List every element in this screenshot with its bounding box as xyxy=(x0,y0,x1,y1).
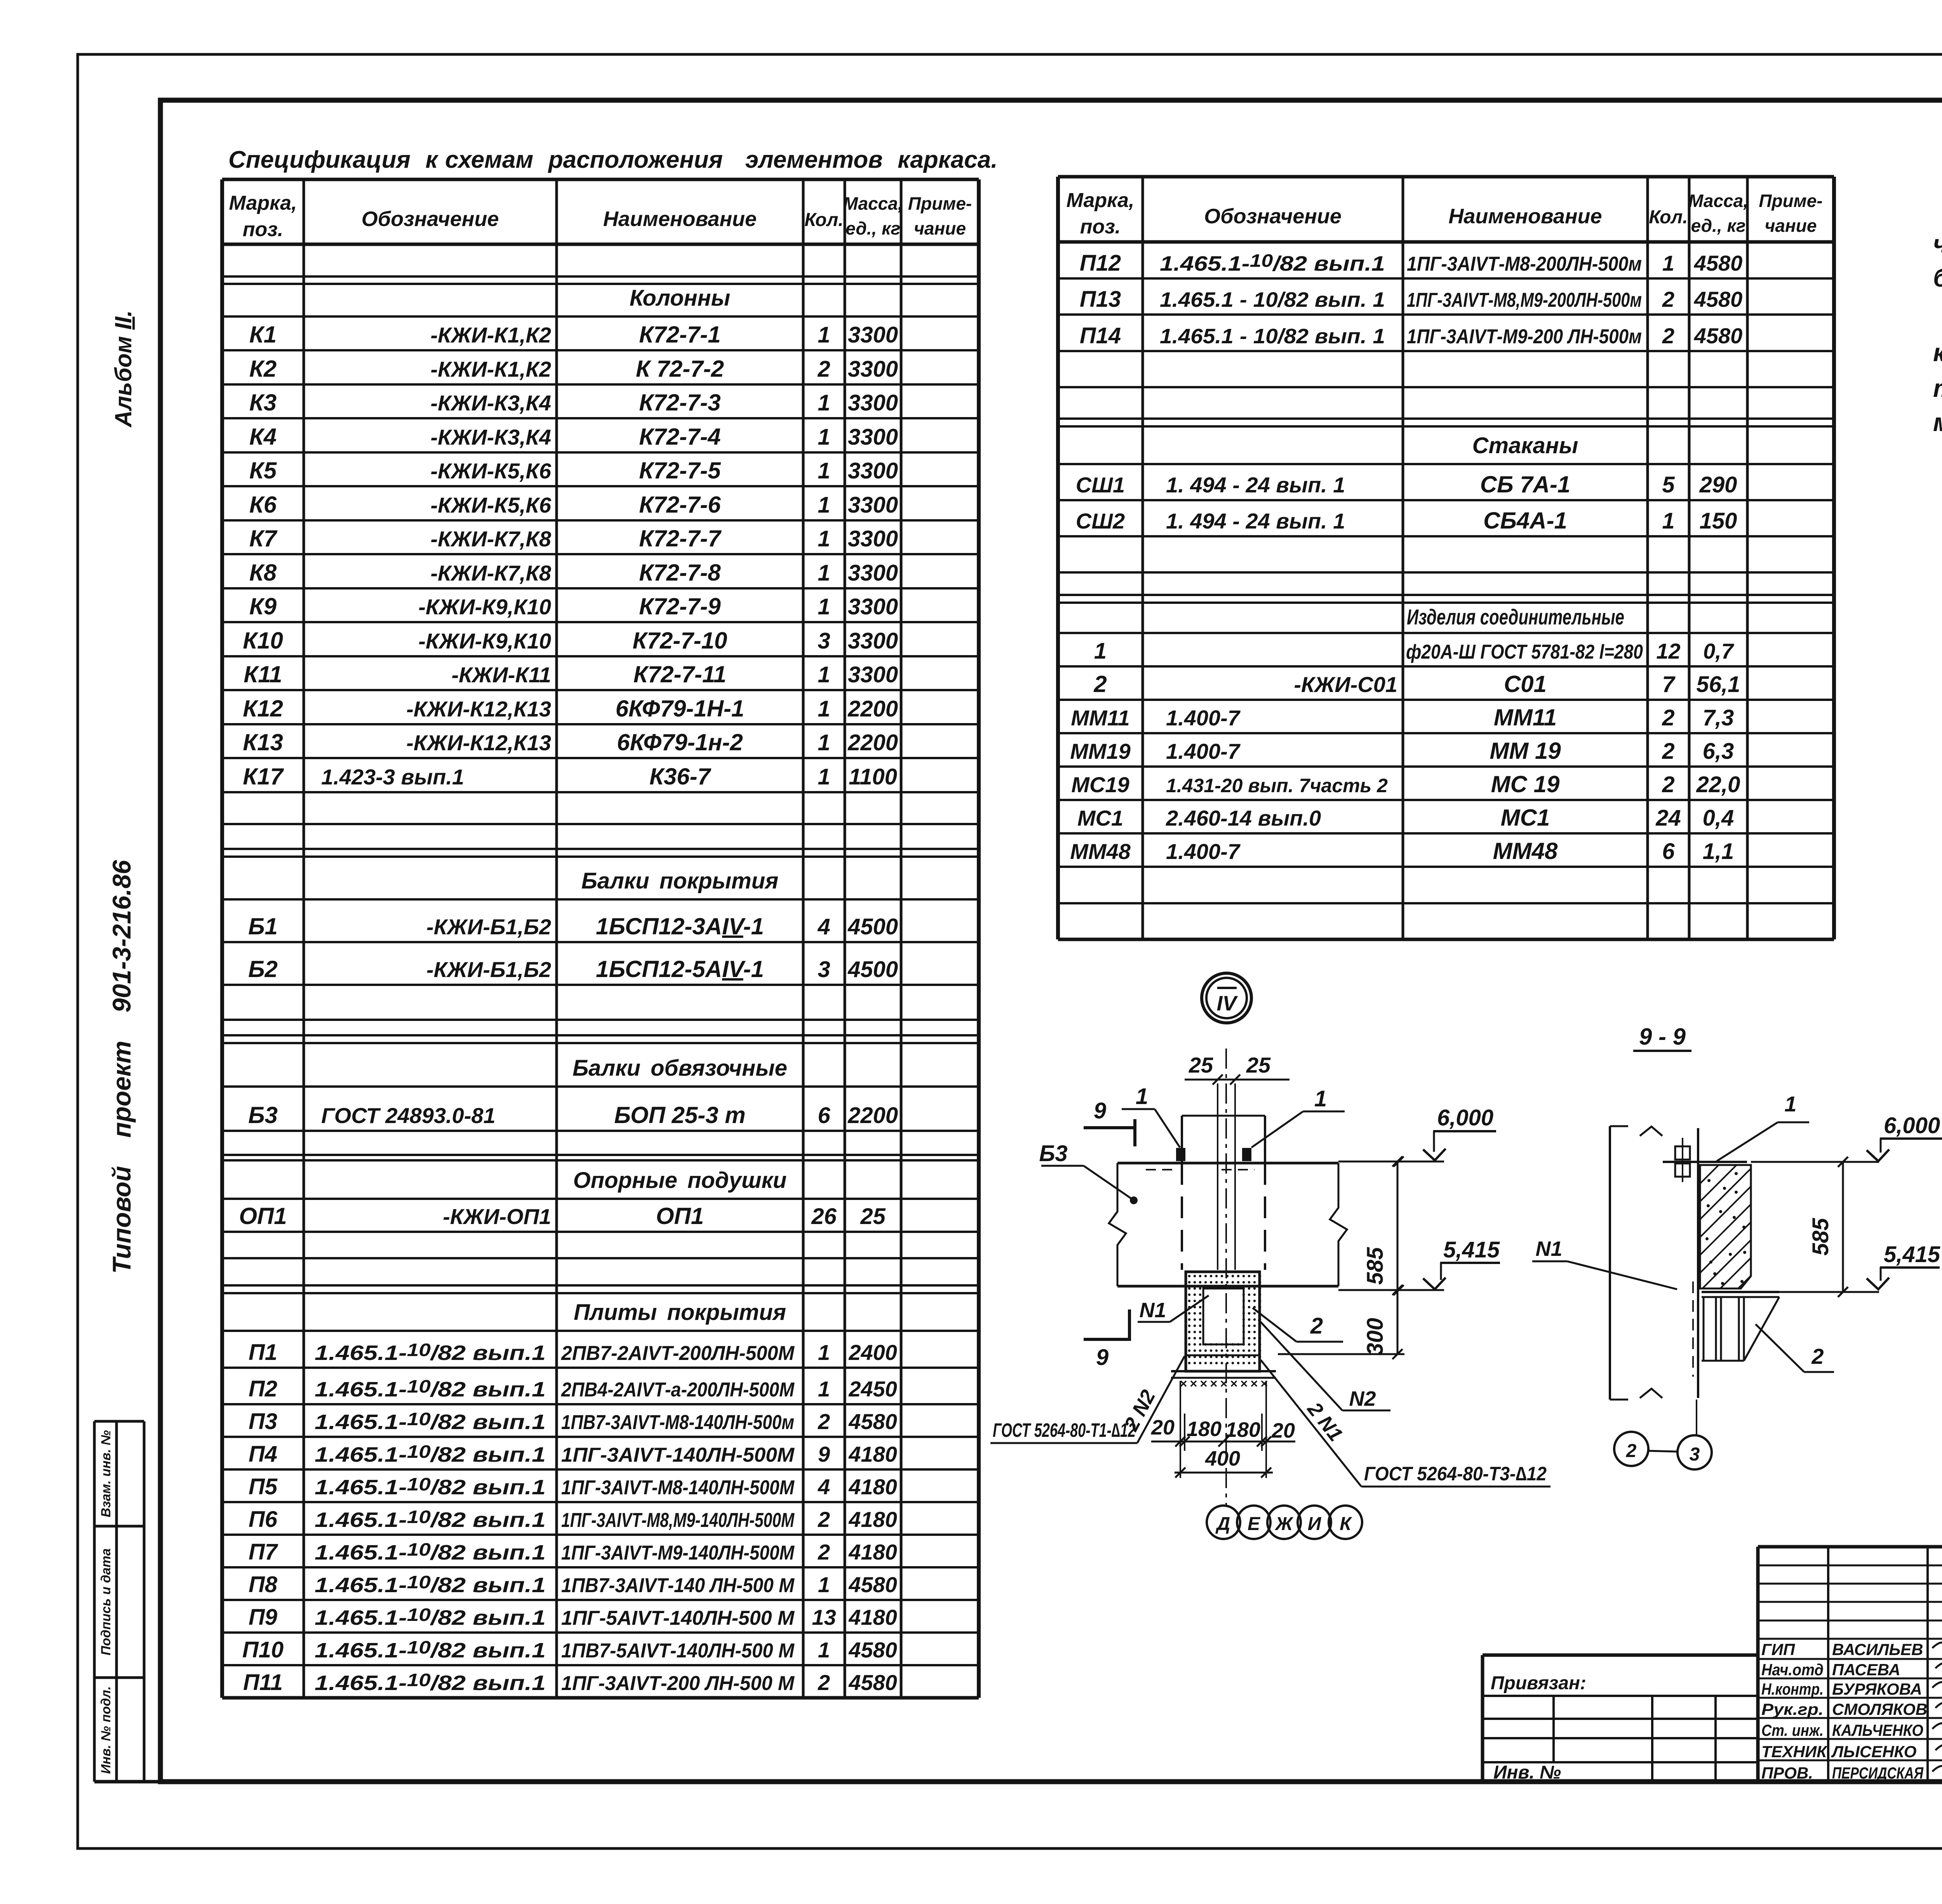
svg-text:2: 2 xyxy=(1662,772,1674,797)
left table row П10 xyxy=(242,1637,897,1662)
svg-text:7: 7 xyxy=(1662,672,1676,697)
svg-text:1: 1 xyxy=(1136,1084,1148,1109)
svg-text:ОП1: ОП1 xyxy=(656,1203,704,1229)
margin cell Взам. инв. № xyxy=(99,1430,113,1518)
svg-text:П7: П7 xyxy=(249,1539,278,1565)
svg-text:П14: П14 xyxy=(1080,323,1121,348)
svg-text:ПАСЕВА: ПАСЕВА xyxy=(1832,1661,1900,1679)
svg-text:1ПГ-3АIVТ-М8,М9-200ЛН-500м: 1ПГ-3АIVТ-М8,М9-200ЛН-500м xyxy=(1407,289,1642,311)
detail IV bottom dims 20 180 180 20 xyxy=(1151,1381,1295,1478)
svg-text:С01: С01 xyxy=(1504,671,1547,697)
svg-text:2450: 2450 xyxy=(848,1377,897,1401)
svg-text:1: 1 xyxy=(818,390,830,416)
svg-text:1: 1 xyxy=(1662,508,1674,534)
notes paragraph xyxy=(1933,192,1942,436)
svg-text:ММ11: ММ11 xyxy=(1494,704,1557,730)
svg-text:1: 1 xyxy=(818,560,830,586)
svg-text:1.465.1-10/82 вып.1: 1.465.1-10/82 вып.1 xyxy=(1160,250,1385,275)
svg-text:4180: 4180 xyxy=(848,1442,897,1466)
svg-text:Н.контр.: Н.контр. xyxy=(1761,1680,1824,1698)
svg-text:2ПВ7-2АIVТ-200ЛН-500М: 2ПВ7-2АIVТ-200ЛН-500М xyxy=(561,1342,795,1365)
svg-text:-КЖИ-К5,К6: -КЖИ-К5,К6 xyxy=(430,459,551,483)
svg-text:1.465.1-10/82 вып.1: 1.465.1-10/82 вып.1 xyxy=(315,1409,546,1434)
svg-text:9: 9 xyxy=(1094,1098,1106,1123)
svg-text:К3: К3 xyxy=(249,389,277,416)
svg-text:-КЖИ-К1,К2: -КЖИ-К1,К2 xyxy=(430,323,551,347)
svg-text:Обозначение: Обозначение xyxy=(1204,205,1342,228)
9-9 anchor bolts and plate xyxy=(1663,1138,1747,1182)
svg-text:2: 2 xyxy=(1626,1441,1637,1461)
left table section header Опорные подушки xyxy=(573,1168,787,1193)
svg-text:5: 5 xyxy=(1662,472,1675,497)
svg-text:-КЖИ-Б1,Б2: -КЖИ-Б1,Б2 xyxy=(426,915,551,939)
left table row К5 xyxy=(249,457,898,483)
left table section header Балки обвязочные xyxy=(573,1055,787,1081)
svg-text:3: 3 xyxy=(1690,1444,1700,1465)
title block personnel rows xyxy=(1761,1640,1927,1782)
svg-text:К5: К5 xyxy=(249,457,277,483)
svg-text:1: 1 xyxy=(818,424,830,450)
detail IV elevation 5,415 xyxy=(1338,1237,1500,1295)
svg-text:-КЖИ-К7,К8: -КЖИ-К7,К8 xyxy=(430,527,551,551)
svg-text:400: 400 xyxy=(1205,1447,1240,1470)
svg-text:ГОСТ 5264-80-Т1-∆12: ГОСТ 5264-80-Т1-∆12 xyxy=(993,1419,1136,1441)
left table row Б3 xyxy=(248,1102,898,1128)
left table row П6 xyxy=(249,1507,897,1532)
svg-text:3300: 3300 xyxy=(848,424,898,450)
detail IV leader 1 right xyxy=(1251,1086,1345,1148)
svg-text:2200: 2200 xyxy=(847,730,898,755)
left table row П2 xyxy=(249,1376,897,1401)
left table row К1 xyxy=(249,322,898,348)
svg-text:П8: П8 xyxy=(249,1572,278,1597)
svg-text:1.400-7: 1.400-7 xyxy=(1166,839,1241,864)
left table row П11 xyxy=(243,1670,897,1695)
svg-text:2: 2 xyxy=(1310,1313,1323,1339)
svg-text:585: 585 xyxy=(1363,1247,1388,1285)
svg-text:25: 25 xyxy=(1189,1053,1213,1077)
svg-text:К72-7-9: К72-7-9 xyxy=(639,593,721,619)
svg-text:-КЖИ-Б1,Б2: -КЖИ-Б1,Б2 xyxy=(426,957,551,982)
svg-text:МС 19: МС 19 xyxy=(1491,771,1560,797)
sheet title xyxy=(228,146,997,173)
right table row ММ11 xyxy=(1071,704,1734,730)
svg-text:3: 3 xyxy=(818,957,830,982)
svg-text:4580: 4580 xyxy=(848,1409,897,1434)
svg-text:МС1: МС1 xyxy=(1501,805,1550,831)
svg-text:ед., кг: ед., кг xyxy=(846,218,900,238)
svg-text:-КЖИ-С01: -КЖИ-С01 xyxy=(1294,672,1397,697)
svg-text:К72-7-11: К72-7-11 xyxy=(633,661,726,687)
svg-text:2: 2 xyxy=(1093,671,1107,697)
margin label Типовой проект 901-3-216.86 xyxy=(107,859,136,1274)
svg-text:К2: К2 xyxy=(249,356,277,382)
svg-text:-КЖИ-К12,К13: -КЖИ-К12,К13 xyxy=(406,730,551,755)
svg-text:5,415: 5,415 xyxy=(1443,1237,1500,1262)
9-9 elevation 6,000 xyxy=(1751,1113,1942,1167)
svg-text:Балки покрытия: Балки покрытия xyxy=(581,868,778,894)
detail IV label N1 xyxy=(1138,1295,1209,1322)
9-9 leader 2 xyxy=(1756,1324,1834,1372)
svg-text:1ПГ-3АIVТ-М8-200ЛН-500м: 1ПГ-3АIVТ-М8-200ЛН-500м xyxy=(1407,253,1642,275)
svg-text:честве утеплителя принят пе: честве утеплителя принят пено- xyxy=(1933,230,1942,258)
svg-text:Привязан:: Привязан: xyxy=(1491,1673,1586,1694)
svg-text:1.400-7: 1.400-7 xyxy=(1166,706,1241,730)
detail IV section mark 9 bottom xyxy=(1084,1309,1131,1370)
svg-text:Ж: Ж xyxy=(1274,1514,1294,1534)
svg-text:1.465.1-10/82 вып.1: 1.465.1-10/82 вып.1 xyxy=(315,1637,546,1662)
svg-text:2: 2 xyxy=(818,1670,830,1695)
svg-text:1: 1 xyxy=(1094,638,1107,664)
svg-text:4580: 4580 xyxy=(1694,323,1743,348)
svg-text:1: 1 xyxy=(1784,1092,1796,1116)
right table row П12 xyxy=(1080,250,1742,276)
svg-text:ММ11: ММ11 xyxy=(1071,706,1129,730)
svg-text:Е: Е xyxy=(1248,1514,1261,1534)
svg-text:1ПГ-3АIVТ-М9-200 ЛН-500м: 1ПГ-3АIVТ-М9-200 ЛН-500м xyxy=(1407,325,1642,348)
right table row ММ48 xyxy=(1070,838,1734,864)
svg-text:0,7: 0,7 xyxy=(1703,639,1735,663)
left table row К9 xyxy=(249,593,898,619)
svg-text:4580: 4580 xyxy=(848,1572,897,1597)
svg-text:20: 20 xyxy=(1271,1419,1295,1442)
detail IV weld note ГОСТ 5264-80-Т1 with leader 2N2 xyxy=(990,1356,1185,1443)
svg-text:4180: 4180 xyxy=(848,1540,897,1564)
svg-text:К72-7-4: К72-7-4 xyxy=(639,424,720,450)
detail IV column outline xyxy=(1182,1116,1265,1270)
left table row Б1 xyxy=(248,913,898,939)
detail IV elevation 6,000 xyxy=(1338,1105,1496,1167)
margin cell Инв. № подл. xyxy=(99,1686,113,1774)
svg-text:К7: К7 xyxy=(249,525,278,551)
svg-text:К72-7-7: К72-7-7 xyxy=(639,525,722,551)
svg-text:Обозначение: Обозначение xyxy=(362,207,499,231)
svg-text:-КЖИ-К9,К10: -КЖИ-К9,К10 xyxy=(418,629,551,653)
svg-text:СШ2: СШ2 xyxy=(1076,509,1125,533)
svg-text:СШ1: СШ1 xyxy=(1076,473,1125,497)
right table row МС19 xyxy=(1071,771,1740,797)
svg-text:1. 494 - 24 вып. 1: 1. 494 - 24 вып. 1 xyxy=(1166,473,1345,497)
9-9 bracket console xyxy=(1693,1282,1779,1377)
svg-text:ф20А-Ш ГОСТ 5781-82 l=280: ф20А-Ш ГОСТ 5781-82 l=280 xyxy=(1406,641,1643,663)
svg-text:П10: П10 xyxy=(242,1637,284,1662)
9-9 vertical dim 585 xyxy=(1808,1157,1848,1297)
svg-text:1: 1 xyxy=(818,730,830,755)
svg-text:4180: 4180 xyxy=(848,1605,897,1629)
svg-text:150: 150 xyxy=(1700,508,1737,534)
right specification table grid xyxy=(1058,177,1834,939)
svg-text:К72-7-8: К72-7-8 xyxy=(639,560,721,586)
svg-text:1.465.1-10/82 вып.1: 1.465.1-10/82 вып.1 xyxy=(315,1670,546,1695)
svg-text:марки: марки xyxy=(1933,408,1942,436)
svg-text:6,000: 6,000 xyxy=(1884,1113,1940,1138)
left table row К11 xyxy=(244,661,898,687)
svg-text:13: 13 xyxy=(812,1605,836,1629)
svg-text:бетон.: бетон. xyxy=(1933,263,1942,292)
svg-text:П4: П4 xyxy=(249,1441,277,1467)
svg-text:Ст. инж.: Ст. инж. xyxy=(1761,1721,1824,1739)
svg-text:9: 9 xyxy=(1096,1345,1108,1370)
svg-text:180: 180 xyxy=(1225,1418,1260,1441)
svg-text:П3: П3 xyxy=(249,1409,277,1434)
svg-text:1: 1 xyxy=(818,696,830,722)
right table row П14 xyxy=(1080,323,1742,348)
svg-text:1: 1 xyxy=(1662,251,1674,275)
svg-text:4580: 4580 xyxy=(1694,287,1743,311)
svg-text:Б3: Б3 xyxy=(1039,1141,1067,1166)
svg-text:3300: 3300 xyxy=(848,594,898,619)
svg-text:N2: N2 xyxy=(1349,1387,1376,1410)
svg-text:1ПГ-3АIVТ-М8-140ЛН-500М: 1ПГ-3АIVТ-М8-140ЛН-500М xyxy=(561,1476,795,1499)
svg-text:1БСП12-5АIV-1: 1БСП12-5АIV-1 xyxy=(596,956,764,982)
svg-text:К12: К12 xyxy=(243,696,283,722)
svg-text:Кол.: Кол. xyxy=(1649,207,1688,228)
svg-text:3300: 3300 xyxy=(848,322,898,348)
svg-text:N1: N1 xyxy=(1139,1299,1166,1322)
section 9-9 label xyxy=(1633,1024,1691,1051)
svg-text:П11: П11 xyxy=(243,1670,283,1695)
svg-text:К4: К4 xyxy=(249,424,277,450)
svg-text:БУРЯКОВА: БУРЯКОВА xyxy=(1832,1680,1922,1698)
svg-text:2: 2 xyxy=(817,356,830,382)
svg-text:2ПВ4-2АIVТ-а-200ЛН-500М: 2ПВ4-2АIVТ-а-200ЛН-500М xyxy=(561,1379,795,1401)
svg-text:П12: П12 xyxy=(1080,250,1121,276)
svg-text:-КЖИ-ОП1: -КЖИ-ОП1 xyxy=(443,1204,551,1229)
svg-text:Наименование: Наименование xyxy=(1448,205,1602,228)
svg-text:СБ4А-1: СБ4А-1 xyxy=(1483,508,1567,534)
title block signatures xyxy=(1932,1638,1942,1772)
svg-text:1.465.1-10/82 вып.1: 1.465.1-10/82 вып.1 xyxy=(315,1539,546,1564)
svg-text:1.465.1-10/82 вып.1: 1.465.1-10/82 вып.1 xyxy=(315,1340,546,1365)
detail IV grid bubbles Д Е Ж И К xyxy=(1207,1506,1362,1539)
svg-text:1: 1 xyxy=(818,1572,830,1597)
svg-text:7,3: 7,3 xyxy=(1703,705,1734,730)
svg-text:3300: 3300 xyxy=(848,628,898,654)
svg-text:1ПВ7-3АIVТ-140 ЛН-500 М: 1ПВ7-3АIVТ-140 ЛН-500 М xyxy=(561,1574,795,1597)
svg-text:1,1: 1,1 xyxy=(1703,839,1734,864)
svg-text:22,0: 22,0 xyxy=(1696,772,1740,797)
right table row СШ2 xyxy=(1076,508,1737,534)
svg-text:ЛЫСЕНКО: ЛЫСЕНКО xyxy=(1831,1742,1916,1761)
svg-text:ГОСТ 5264-80-Т3-∆12: ГОСТ 5264-80-Т3-∆12 xyxy=(1364,1463,1547,1485)
left table row П4 xyxy=(249,1441,897,1467)
svg-text:БОП 25-3 т: БОП 25-3 т xyxy=(614,1102,745,1128)
svg-text:Масса,: Масса, xyxy=(1688,191,1748,211)
svg-text:26: 26 xyxy=(811,1204,837,1229)
svg-text:1100: 1100 xyxy=(849,764,897,789)
svg-text:1: 1 xyxy=(818,492,830,518)
svg-text:4580: 4580 xyxy=(1694,251,1743,275)
svg-text:1: 1 xyxy=(818,322,830,348)
svg-text:ММ48: ММ48 xyxy=(1493,838,1558,864)
9-9 wall lines with break marks xyxy=(1610,1126,1698,1400)
svg-text:6,000: 6,000 xyxy=(1437,1105,1493,1130)
svg-text:2: 2 xyxy=(818,1507,830,1532)
svg-text:1ПГ-3АIVТ-М9-140ЛН-500М: 1ПГ-3АIVТ-М9-140ЛН-500М xyxy=(561,1542,795,1564)
svg-text:ГИП: ГИП xyxy=(1761,1640,1795,1659)
svg-text:Спецификация к схемам распол: Спецификация к схемам расположения элеме… xyxy=(228,146,997,173)
svg-text:1.400-7: 1.400-7 xyxy=(1166,739,1241,763)
svg-text:П13: П13 xyxy=(1080,287,1121,312)
title block text Инв № xyxy=(1493,1762,1561,1783)
svg-text:2: 2 xyxy=(1662,323,1674,348)
svg-text:1БСП12-3АIV-1: 1БСП12-3АIV-1 xyxy=(596,913,764,939)
detail IV beam Б3 outline xyxy=(1109,1163,1347,1286)
left table row П8 xyxy=(249,1572,897,1597)
left table row П9 xyxy=(249,1605,897,1630)
left table row К17 xyxy=(243,763,897,789)
detail IV circled label xyxy=(1202,973,1251,1023)
svg-text:К17: К17 xyxy=(243,763,284,789)
svg-text:9 - 9: 9 - 9 xyxy=(1639,1024,1686,1050)
svg-text:поз.: поз. xyxy=(243,218,284,241)
svg-text:1ПГ-3АIVТ-М8,М9-140ЛН-500М: 1ПГ-3АIVТ-М8,М9-140ЛН-500М xyxy=(561,1509,795,1532)
svg-text:5,415: 5,415 xyxy=(1884,1242,1940,1267)
left table row К10 xyxy=(243,628,898,654)
margin stamp table grid xyxy=(94,1421,160,1782)
svg-text:0,4: 0,4 xyxy=(1703,805,1734,831)
svg-text:1ПВ7-3АIVТ-М8-140ЛН-500м: 1ПВ7-3АIVТ-М8-140ЛН-500м xyxy=(561,1411,794,1434)
svg-text:СМОЛЯКОВ: СМОЛЯКОВ xyxy=(1832,1700,1927,1718)
svg-text:4580: 4580 xyxy=(848,1638,897,1662)
left table row К4 xyxy=(249,424,898,450)
svg-text:Инв. №: Инв. № xyxy=(1493,1762,1561,1783)
detail IV label N2 xyxy=(1258,1320,1390,1410)
svg-text:П5: П5 xyxy=(249,1474,278,1499)
svg-text:3300: 3300 xyxy=(848,492,898,518)
svg-text:-КЖИ-К5,К6: -КЖИ-К5,К6 xyxy=(430,493,551,517)
svg-text:180: 180 xyxy=(1187,1417,1222,1441)
right table section header xyxy=(1407,605,1624,629)
left table section header Плиты покрытия xyxy=(574,1300,786,1325)
left table row ОП1 xyxy=(239,1203,886,1229)
svg-text:П9: П9 xyxy=(249,1605,277,1630)
svg-text:1: 1 xyxy=(818,526,830,551)
svg-text:12: 12 xyxy=(1656,639,1680,663)
svg-text:1: 1 xyxy=(818,1340,830,1365)
title block personnel grid xyxy=(1758,1547,1942,1782)
svg-text:Нач.отд: Нач.отд xyxy=(1761,1661,1824,1679)
svg-text:Б1: Б1 xyxy=(248,913,278,939)
svg-text:300: 300 xyxy=(1363,1318,1388,1356)
9-9 leader N1 xyxy=(1532,1237,1677,1289)
svg-text:МС19: МС19 xyxy=(1071,772,1129,797)
svg-text:2: 2 xyxy=(818,1409,830,1434)
svg-text:П1: П1 xyxy=(249,1340,277,1365)
svg-text:та по серии 1.465-7 выпуск: та по серии 1.465-7 выпуск 3 xyxy=(1933,374,1942,402)
svg-text:1.423-3 вып.1: 1.423-3 вып.1 xyxy=(321,765,464,789)
svg-text:ГОСТ 24893.0-81: ГОСТ 24893.0-81 xyxy=(321,1103,496,1128)
svg-text:1: 1 xyxy=(818,662,830,687)
detail IV dim 25 25 xyxy=(1185,1053,1289,1085)
right table row П13 xyxy=(1080,287,1742,312)
left table header xyxy=(229,192,972,241)
svg-text:1.465.1-10/82 вып.1: 1.465.1-10/82 вып.1 xyxy=(315,1507,546,1532)
svg-text:56,1: 56,1 xyxy=(1697,672,1740,697)
svg-text:К8: К8 xyxy=(249,560,277,586)
svg-text:ВАСИЛЬЕВ: ВАСИЛЬЕВ xyxy=(1832,1640,1923,1659)
detail IV dim 400 xyxy=(1175,1447,1273,1478)
svg-text:1.431-20 вып. 7часть 2: 1.431-20 вып. 7часть 2 xyxy=(1166,775,1388,796)
svg-text:К72-7-1: К72-7-1 xyxy=(639,322,720,348)
svg-text:МС1: МС1 xyxy=(1077,806,1123,830)
svg-text:2: 2 xyxy=(818,1540,830,1564)
svg-text:2.460-14 вып.0: 2.460-14 вып.0 xyxy=(1166,806,1321,830)
svg-text:-КЖИ-К3,К4: -КЖИ-К3,К4 xyxy=(430,391,551,415)
9-9 grid bubbles 2 and 3 xyxy=(1614,1400,1712,1469)
9-9 leader 1 xyxy=(1717,1092,1809,1161)
right table row 1 xyxy=(1094,638,1735,664)
svg-text:К: К xyxy=(1340,1514,1352,1534)
svg-text:чание: чание xyxy=(914,218,966,238)
svg-text:Приме-: Приме- xyxy=(1759,191,1822,211)
svg-text:4500: 4500 xyxy=(847,914,898,939)
svg-text:2: 2 xyxy=(1811,1344,1824,1368)
left table row К12 xyxy=(243,696,898,722)
svg-text:1: 1 xyxy=(1314,1086,1327,1111)
svg-text:4500: 4500 xyxy=(847,957,898,982)
svg-text:3: 3 xyxy=(818,628,830,654)
left table row Б2 xyxy=(248,956,898,982)
svg-text:6КФ79-1Н-1: 6КФ79-1Н-1 xyxy=(616,696,745,722)
left table row К3 xyxy=(249,389,898,416)
svg-text:Колонны: Колонны xyxy=(630,285,730,311)
svg-text:К11: К11 xyxy=(244,661,282,687)
svg-text:3300: 3300 xyxy=(848,356,898,382)
svg-text:1.465.1-10/82 вып.1: 1.465.1-10/82 вып.1 xyxy=(315,1441,546,1466)
svg-text:3300: 3300 xyxy=(848,560,898,586)
svg-text:К 72-7-2: К 72-7-2 xyxy=(636,356,724,382)
svg-text:6: 6 xyxy=(1662,839,1675,864)
right table row СШ1 xyxy=(1076,471,1737,497)
svg-text:Наименование: Наименование xyxy=(603,207,757,231)
svg-text:2400: 2400 xyxy=(848,1340,897,1365)
svg-text:6КФ79-1н-2: 6КФ79-1н-2 xyxy=(617,729,743,755)
svg-text:-КЖИ-К12,К13: -КЖИ-К12,К13 xyxy=(406,697,551,721)
svg-text:24: 24 xyxy=(1655,805,1681,831)
svg-text:Балки обвязочные: Балки обвязочные xyxy=(573,1055,787,1081)
svg-text:К72-7-6: К72-7-6 xyxy=(639,492,721,518)
margin label Album II xyxy=(110,310,136,428)
svg-text:чание: чание xyxy=(1765,216,1817,236)
svg-text:Изделия соединительные: Изделия соединительные xyxy=(1407,605,1624,629)
svg-text:6: 6 xyxy=(818,1103,830,1128)
svg-text:1.465.1 - 10/82 вып. 1: 1.465.1 - 10/82 вып. 1 xyxy=(1160,325,1385,348)
svg-text:3300: 3300 xyxy=(848,526,898,551)
svg-text:1ПГ-5АIVТ-140ЛН-500 М: 1ПГ-5АIVТ-140ЛН-500 М xyxy=(561,1607,795,1629)
detail IV label Б3 xyxy=(1039,1141,1138,1204)
svg-text:Марка,: Марка, xyxy=(229,192,297,214)
left table row К6 xyxy=(249,492,898,518)
svg-text:N1: N1 xyxy=(1535,1237,1562,1261)
svg-text:1: 1 xyxy=(818,1638,830,1662)
svg-text:Рук.гр.: Рук.гр. xyxy=(1761,1700,1824,1718)
title block left section (Привязан) xyxy=(1483,1696,1758,1782)
svg-text:4: 4 xyxy=(817,914,830,939)
svg-text:К72-7-3: К72-7-3 xyxy=(639,389,720,416)
svg-text:поз.: поз. xyxy=(1080,216,1121,238)
left table section header Балки покрытия xyxy=(581,868,778,894)
svg-text:2200: 2200 xyxy=(847,696,898,722)
svg-text:25: 25 xyxy=(1246,1053,1271,1077)
svg-text:9: 9 xyxy=(818,1442,830,1466)
svg-text:Марка,: Марка, xyxy=(1067,189,1135,212)
svg-text:П6: П6 xyxy=(249,1507,278,1532)
left table section header Колонны xyxy=(630,285,730,311)
svg-text:ПРОВ.: ПРОВ. xyxy=(1761,1764,1813,1782)
svg-text:Кол.: Кол. xyxy=(804,210,843,230)
svg-text:IV: IV xyxy=(1216,992,1238,1015)
